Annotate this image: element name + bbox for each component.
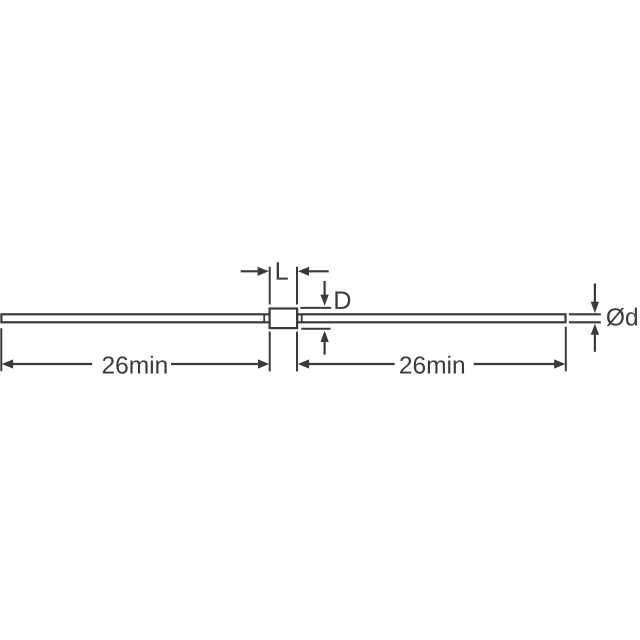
extension line lead-right-end <box>565 327 567 372</box>
extension line lead-dia bottom <box>569 321 601 323</box>
extension line body-left upper <box>269 267 271 305</box>
extension line body-right upper <box>296 267 298 305</box>
left lead tick at body <box>263 313 265 323</box>
label D <box>335 292 350 309</box>
left lead <box>1 314 269 322</box>
dimension 26min left: arrows and line <box>2 359 269 368</box>
label L <box>277 262 288 279</box>
dimension D down arrow <box>320 281 328 306</box>
extension line lead-dia top <box>569 313 601 315</box>
extension line D bottom <box>301 328 330 330</box>
extension line D top <box>300 307 331 309</box>
extension line body-left lower <box>269 332 271 372</box>
dimension 26min right: arrows and line <box>298 359 566 368</box>
extension line lead-left <box>0 328 2 371</box>
dimension D up arrow <box>320 331 328 355</box>
right lead <box>297 314 565 322</box>
right lead tick at body <box>301 313 303 323</box>
label 26min left <box>103 356 167 374</box>
label Od <box>607 308 637 326</box>
dimension Od down arrow <box>591 284 599 314</box>
extension line body-right lower <box>296 332 298 372</box>
dimension L left arrow <box>241 267 269 276</box>
diode body <box>270 309 298 329</box>
dimension L right arrow <box>298 267 329 276</box>
label 26min right <box>400 356 464 374</box>
dimension Od up arrow <box>591 324 599 352</box>
